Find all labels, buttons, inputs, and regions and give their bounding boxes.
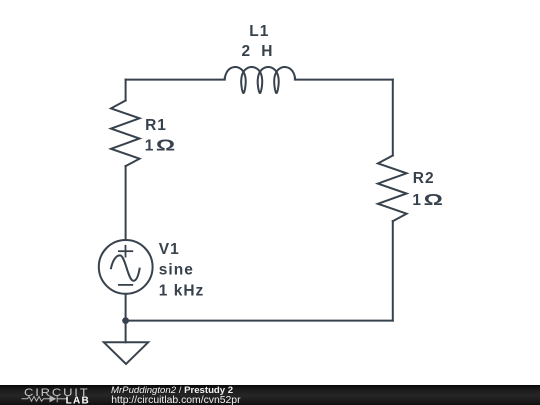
V1 sine wave <box>111 255 140 280</box>
ground symbol <box>104 342 148 364</box>
svg-text:1: 1 <box>412 192 422 209</box>
svg-text:L1: L1 <box>249 23 269 40</box>
wire right rail upper <box>392 80 394 156</box>
svg-text:R2: R2 <box>413 170 435 187</box>
svg-text:1: 1 <box>145 138 155 155</box>
svg-text:LAB: LAB <box>66 395 90 405</box>
svg-text:H: H <box>261 43 273 60</box>
wire bottom horizontal <box>126 320 393 322</box>
wire left rail upper <box>125 80 127 101</box>
svg-text:Ω: Ω <box>424 192 445 209</box>
V1 minus sign <box>119 284 132 286</box>
inductor L1 <box>225 67 295 93</box>
wire top-right horizontal <box>295 78 393 80</box>
svg-text:R1: R1 <box>145 117 167 134</box>
svg-text:V1: V1 <box>159 241 180 258</box>
V1 plus sign <box>119 246 132 257</box>
voltage source V1 circle <box>99 240 153 294</box>
svg-text:http://circuitlab.com/cvn52pr: http://circuitlab.com/cvn52pr <box>111 395 241 405</box>
logo wire glyph with resistor and diode <box>22 395 68 402</box>
wire top-left horizontal <box>126 78 225 80</box>
svg-text:Ω: Ω <box>156 138 177 155</box>
node junction dot <box>122 317 129 324</box>
svg-text:sine: sine <box>159 262 194 279</box>
resistor R1 <box>111 101 140 167</box>
wire right rail lower <box>392 221 394 321</box>
wire left rail middle <box>125 166 127 239</box>
resistor R2 <box>378 156 407 222</box>
svg-text:2: 2 <box>242 43 252 60</box>
svg-text:1 kHz: 1 kHz <box>159 282 205 299</box>
wire left rail lower <box>125 294 127 342</box>
